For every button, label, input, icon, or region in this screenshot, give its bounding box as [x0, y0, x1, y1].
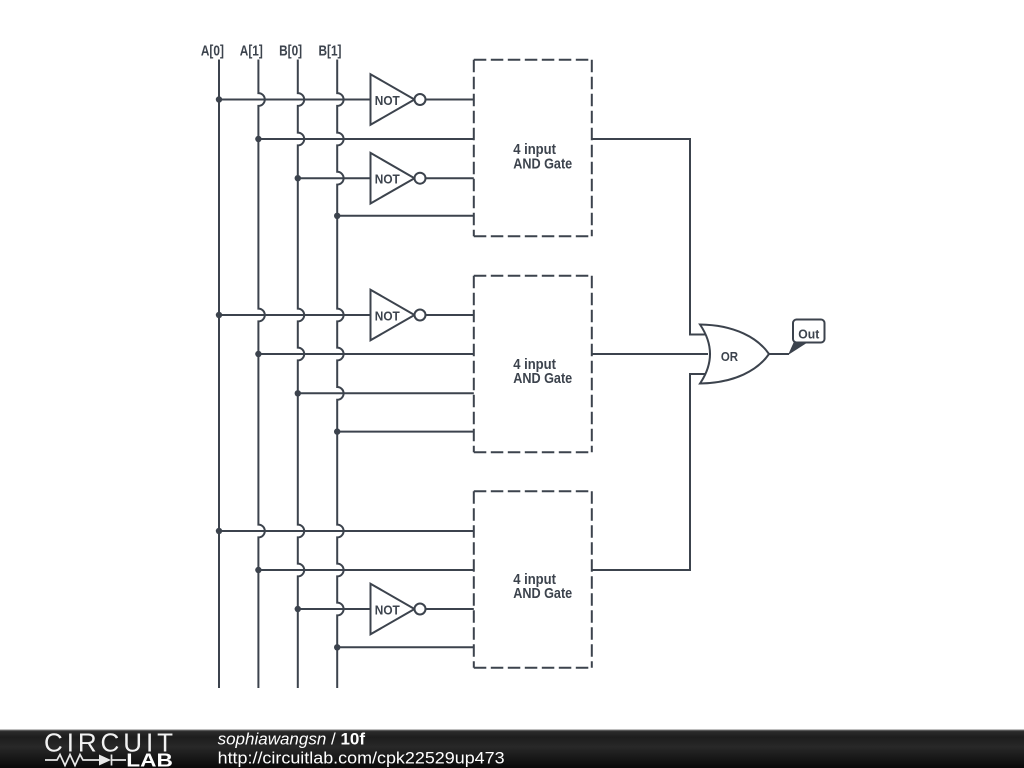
- svg-text:LAB: LAB: [126, 751, 173, 768]
- node flag Out: [788, 343, 808, 356]
- node junction B[0]-g2r3: [295, 390, 301, 396]
- wire U2 out to AND box1: [426, 177, 474, 179]
- svg-text:sophiawangsn / 10f: sophiawangsn / 10f: [218, 730, 366, 749]
- NOT gate U1: [371, 74, 415, 125]
- node junction A[1]-g3r2: [255, 567, 261, 573]
- wire group1 row1 (A[0] to NOT U1): [219, 99, 371, 101]
- logo resistor and diode glyph: [45, 755, 126, 766]
- node junction B[0]-g1r3: [295, 175, 301, 181]
- wire U1 out to AND box1: [426, 99, 474, 101]
- 4 input AND Gate box2: [474, 276, 592, 453]
- wire group1 row4 (B[1] to box1): [337, 215, 474, 217]
- NOT gate U2: [371, 153, 415, 204]
- bus wire B[1] vertical with hops: [337, 60, 343, 689]
- wire group3 row4 (B[1] to box3): [337, 646, 474, 648]
- bus wire A[1] vertical with hops: [258, 60, 264, 689]
- wire group3 row2 (A[1] to box3): [258, 569, 473, 571]
- node junction A[0]-g2r1: [216, 312, 222, 318]
- node junction A[0]-g3r1: [216, 528, 222, 534]
- wire OR output: [769, 353, 789, 355]
- wire group3 row1 (A[0] to box3): [219, 530, 474, 532]
- 4 input AND Gate box3: [474, 491, 592, 668]
- node junction B[0]-g3r3: [295, 606, 301, 612]
- wire group2 row4 (B[1] to box2): [337, 431, 474, 433]
- node junction A[1]-g1r2: [255, 136, 261, 142]
- wire group3 row3 (B[0] to NOT U4): [298, 608, 371, 610]
- node junction B[1]-g1r4: [334, 213, 340, 219]
- 4 input AND Gate box1: [474, 60, 592, 237]
- node junction A[1]-g2r2: [255, 351, 261, 357]
- node junction A[0]-g1r1: [216, 96, 222, 102]
- NOT gate U4: [371, 584, 415, 635]
- wire box2 output to OR middle input: [592, 353, 708, 355]
- wire box3 output to OR bottom input: [592, 374, 705, 570]
- wire U3 out to AND box2: [426, 314, 474, 316]
- wire group2 row2 (A[1] to box2): [258, 353, 473, 355]
- wire U4 out to AND box3: [426, 608, 474, 610]
- wire group1 row3 (B[0] to NOT U2): [298, 177, 371, 179]
- wire group2 row3 (B[0] to box2): [298, 392, 474, 394]
- wire group1 row2 (A[1] to box1): [258, 138, 473, 140]
- wire group2 row1 (A[0] to NOT U3): [219, 314, 371, 316]
- node junction B[1]-g2r4: [334, 428, 340, 434]
- or-gate U5: [700, 325, 769, 384]
- node junction B[1]-g3r4: [334, 644, 340, 650]
- NOT gate U3: [371, 290, 415, 341]
- svg-text:http://circuitlab.com/cpk22529: http://circuitlab.com/cpk22529up473: [218, 749, 505, 768]
- bus wire B[0] vertical with hops: [298, 60, 304, 689]
- wire box1 output to OR top input: [592, 139, 705, 335]
- bus wire A[0] vertical: [218, 60, 220, 689]
